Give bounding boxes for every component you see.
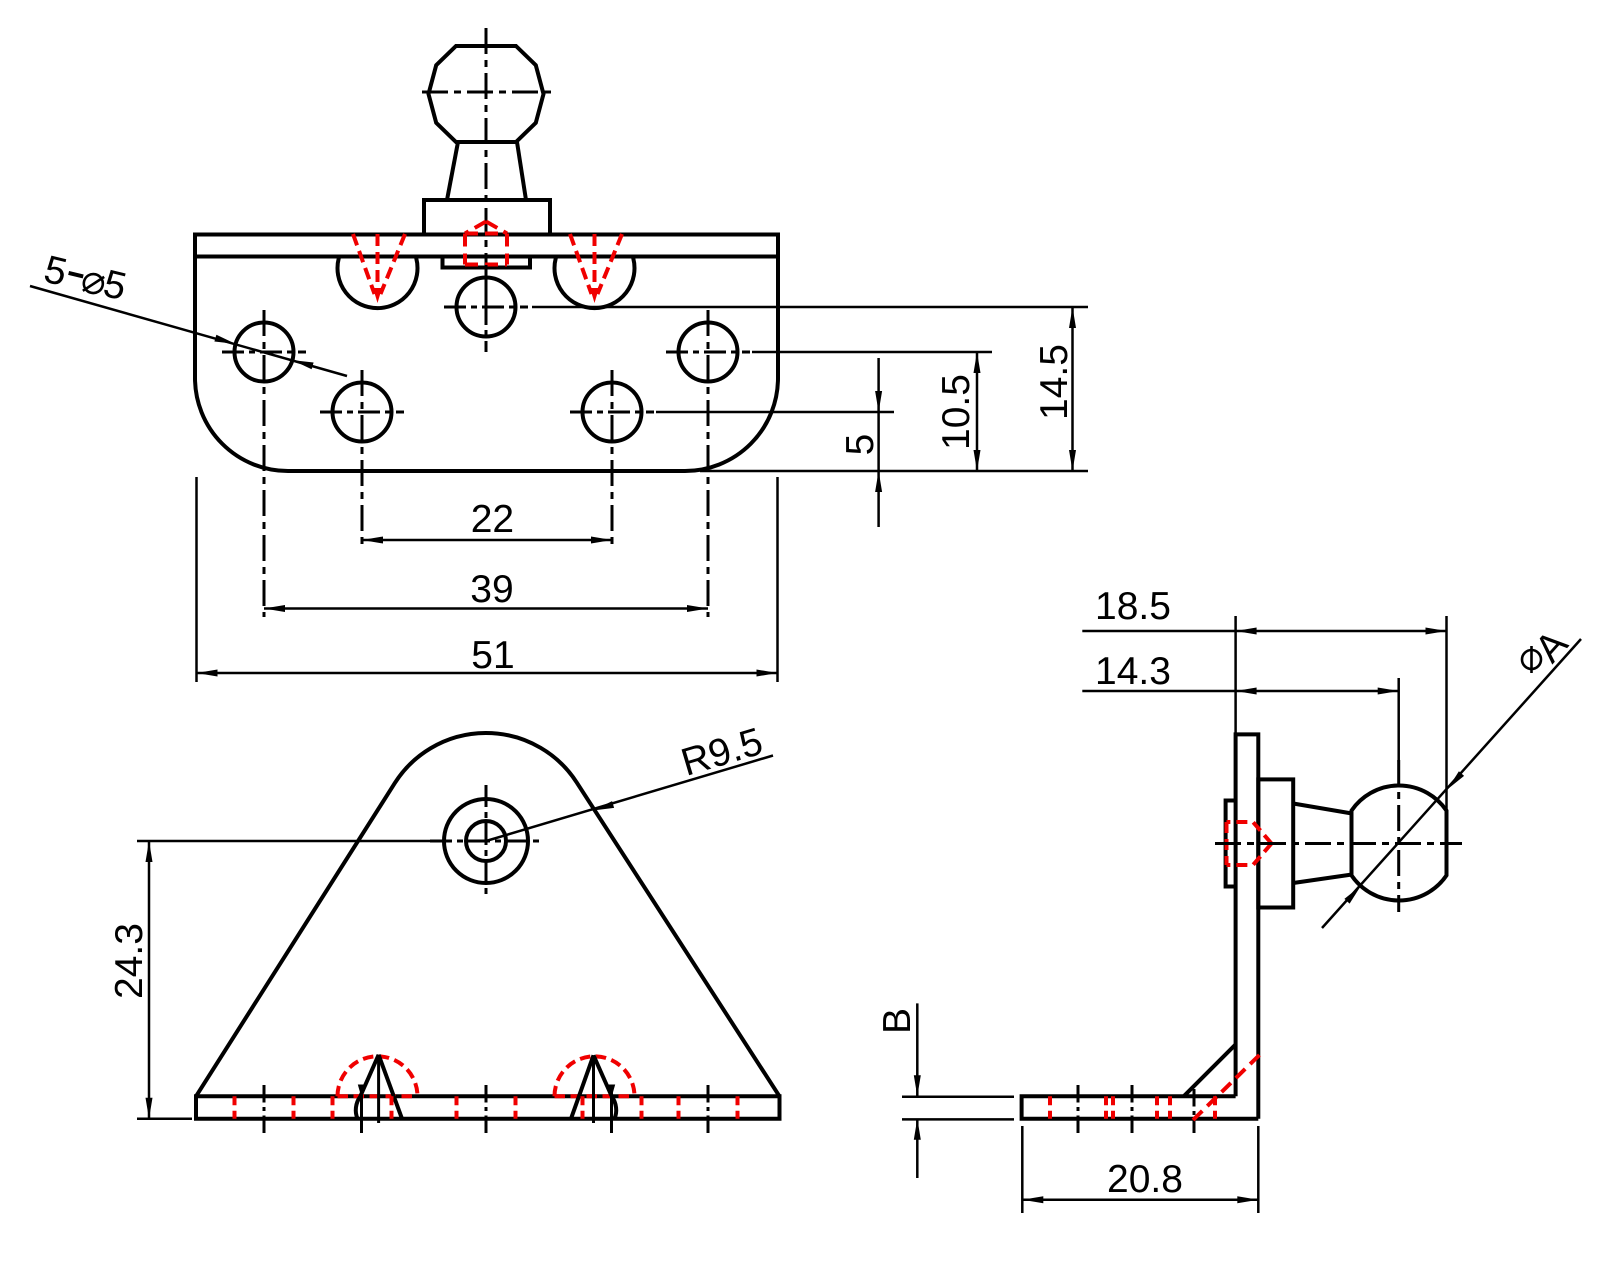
hidden hex bolt head (red dashed, top view) — [465, 222, 507, 265]
dimension 24.3 — [108, 841, 440, 1119]
svg-text:5: 5 — [839, 434, 882, 456]
hidden hole edges in base strip (front view, red) — [235, 1096, 738, 1118]
neck (side) — [1293, 804, 1352, 884]
dimension 14.5 — [532, 307, 1088, 471]
hole right — [666, 310, 750, 617]
plate bend line — [195, 255, 778, 259]
gusset outline — [196, 733, 780, 1119]
dimension 22 — [362, 498, 612, 544]
svg-text:14.3: 14.3 — [1095, 650, 1171, 693]
ball stud (top view) ball circle with flat top — [429, 46, 544, 142]
svg-text:B: B — [876, 1008, 919, 1034]
dimension 39 — [264, 568, 708, 612]
svg-text:22: 22 — [471, 498, 514, 541]
hole lower-right — [570, 370, 654, 549]
ball horizontal centerline — [422, 91, 557, 94]
hole centerline ticks in base strip (front view) — [264, 1085, 708, 1133]
left dimple cone — [356, 1055, 402, 1119]
hole lower-left — [320, 370, 404, 549]
ball (side) with flat — [1352, 786, 1447, 901]
left dimple scallop arc — [338, 258, 418, 308]
svg-text:24.3: 24.3 — [108, 923, 151, 999]
dimension 14.3 — [1082, 650, 1398, 762]
svg-text:18.5: 18.5 — [1095, 585, 1171, 628]
ball vertical centerline — [485, 28, 488, 352]
hole top-center — [444, 265, 528, 352]
R9.5 leader — [486, 720, 773, 841]
right red weld V arrow — [570, 234, 622, 294]
ball stud base block — [424, 200, 550, 235]
ball vertical centerline — [1397, 760, 1400, 912]
dimension 20.8 — [1022, 1126, 1258, 1213]
svg-text:20.8: 20.8 — [1107, 1158, 1183, 1201]
gusset hole inner — [466, 821, 506, 861]
weld fillet — [1184, 1044, 1236, 1096]
vertical plate side view — [1236, 734, 1259, 1118]
base strip side view — [1022, 1096, 1259, 1118]
label 5-dia-5 with leader — [30, 248, 347, 376]
right dimple scallop arc — [555, 258, 635, 308]
label dia-A with leader — [1322, 623, 1581, 928]
left dimple centerline arrow — [358, 1055, 379, 1133]
washer (side) — [1226, 801, 1236, 887]
left dimple (front view): red hidden semicircle — [338, 1056, 418, 1096]
left red weld V arrow — [353, 234, 405, 294]
ball horizontal centerline — [1215, 842, 1462, 845]
dimension 5 — [656, 358, 894, 527]
hidden hex bolt head (side, red) — [1227, 822, 1272, 865]
gusset hole centerlines — [430, 785, 542, 897]
dimension 10.5 — [752, 352, 992, 471]
hidden weld line (red) — [1193, 1055, 1259, 1120]
svg-text:10.5: 10.5 — [935, 374, 978, 450]
dimension B — [876, 1003, 1014, 1178]
right dimple centerline arrow — [594, 1055, 616, 1133]
hole centerline ticks in base strip (side view) — [1078, 1085, 1194, 1133]
svg-text:14.5: 14.5 — [1033, 344, 1076, 420]
plate outline top view — [195, 235, 778, 472]
hole left — [222, 310, 306, 617]
ball stud neck — [447, 142, 526, 200]
gusset hole outer — [444, 799, 528, 883]
svg-text:51: 51 — [471, 634, 514, 677]
svg-text:39: 39 — [470, 568, 513, 611]
dimension 51 — [197, 477, 778, 682]
ball stud base block (side) — [1258, 779, 1293, 907]
dimension 18.5 — [1082, 585, 1446, 813]
right dimple cone — [571, 1055, 616, 1118]
hidden hole edges in base strip (side view, red) — [1050, 1096, 1215, 1118]
right dimple (front view): red hidden semicircle — [555, 1056, 635, 1096]
nut outline below bend line — [443, 257, 531, 268]
